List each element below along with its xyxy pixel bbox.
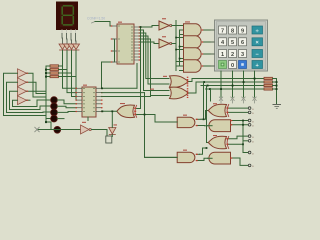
LED indicator dot 5 [54, 126, 61, 133]
component box X1 [106, 136, 112, 143]
junction dots staircase [203, 118, 208, 149]
wire U9B to right gates [200, 148, 208, 161]
wire U1 left pins bus [102, 39, 115, 88]
svg-text:2: 2 [231, 52, 234, 58]
LED indicator dot 1 [51, 97, 58, 104]
diode D3 [68, 44, 75, 50]
wire XOR3 output to U2 [102, 110, 117, 112]
IC U1 (keypad encoder) [111, 24, 140, 64]
junction dots rails [203, 78, 255, 90]
wire inverter inputs nest [4, 73, 51, 118]
inverter U3C [18, 87, 27, 96]
XOR gate U5 (faces left) [117, 105, 137, 118]
junction dots XOR3 [101, 87, 145, 115]
junction dots RP1 [45, 69, 47, 124]
wire U1 right bus verticals [140, 26, 169, 109]
wire AND outs to keypad [208, 30, 215, 66]
wire U2 bottom stub [87, 117, 89, 121]
OR gate U8A [170, 76, 193, 88]
OR gate U8B [170, 87, 197, 99]
U1 pin numbers [118, 26, 133, 63]
XOR gate U10C (faces left) [208, 136, 248, 149]
keypad bottom pins and wires [221, 71, 255, 97]
wire diodes to U2 left pins [63, 51, 77, 101]
LED indicator dot 4 [51, 115, 58, 122]
junction dots RP2 [276, 81, 278, 90]
wire rail feeds to bottom gates [204, 82, 211, 143]
wire dots to U2 [57, 100, 76, 119]
wire RP2 to ground [276, 79, 278, 105]
wire D5 leads [111, 111, 113, 136]
LED indicator dot 3 [51, 109, 58, 116]
svg-text:3: 3 [241, 52, 244, 58]
inverter U6B [159, 39, 172, 48]
output terminal T8 [248, 164, 254, 168]
AND gate U9B (faces left) [145, 152, 200, 162]
inverter U4 (buffer) [81, 125, 92, 134]
AND gate U7A [184, 24, 209, 36]
U2 pin numbers [83, 88, 95, 112]
svg-text:0: 0 [231, 63, 234, 69]
output terminal T2 [248, 111, 254, 115]
LED indicator dot 2 [51, 103, 58, 110]
ground symbol [273, 105, 281, 109]
keypad KP1 [215, 20, 268, 71]
row1 keys [219, 26, 263, 69]
AND gate U7D [184, 60, 209, 72]
output terminal T5 [248, 135, 254, 139]
AND gate U10B (faces left) [208, 120, 249, 132]
IC U2 (7448 decoder) [76, 87, 103, 117]
AND gate U9A (faces left) [155, 117, 201, 127]
unconnected cross marker [35, 127, 39, 131]
unconnected cross markers keypad columns [219, 97, 256, 103]
row4 keys [219, 61, 227, 69]
junction dot U1 bus [140, 26, 142, 28]
wire dot5 row [37, 129, 81, 131]
XOR gate U10A (faces left) [208, 104, 248, 117]
node label CONF [87, 17, 110, 24]
AND gate U7C [184, 48, 209, 60]
AND gate U7B [184, 36, 209, 48]
wire horizontal rails [192, 79, 264, 94]
wire display to diodes [62, 34, 76, 45]
resistor pack RP1 [46, 65, 76, 78]
wire RP1 common bus [46, 66, 51, 130]
row3 keys [219, 50, 227, 58]
keypad left pins [211, 30, 215, 66]
output terminal T3 [248, 119, 254, 123]
diode D5 [109, 128, 116, 135]
resistor pack RP2 [264, 77, 277, 90]
wire U9A to right gates [201, 111, 209, 126]
wire U2 right rows to bus [102, 64, 151, 115]
wire XOR3 inputs from bus [137, 109, 181, 158]
inverter U3A [18, 69, 27, 78]
diode D1 [59, 44, 66, 50]
svg-text:1: 1 [221, 52, 224, 58]
display pins [62, 30, 76, 34]
svg-text:7: 7 [221, 28, 224, 34]
svg-text:CONF=1.50: CONF=1.50 [87, 17, 105, 21]
inverter U6A [159, 21, 172, 30]
wire inverter outputs [27, 73, 47, 100]
diode D4 [73, 44, 80, 50]
output terminal T1 [248, 107, 254, 111]
inverter U3B [18, 78, 27, 87]
wire terminal bus vertical [243, 121, 248, 153]
output terminal T4 [248, 124, 254, 128]
AND gate U10D (faces left) [208, 152, 249, 165]
output terminal T6 [248, 140, 254, 144]
sheet background [0, 0, 284, 177]
pin tips inverters [27, 73, 29, 101]
junction dots terminal bus [242, 120, 244, 146]
svg-text:8: 8 [231, 28, 234, 34]
junction dots AND bus [175, 37, 180, 60]
row2 keys [219, 38, 227, 46]
svg-text:6: 6 [241, 40, 244, 46]
svg-text:9: 9 [241, 28, 244, 34]
wire U4 out to box [91, 130, 107, 137]
7-segment display DISP1 [56, 2, 78, 31]
diode D2 [64, 44, 71, 50]
svg-text:5: 5 [231, 40, 234, 46]
svg-text:÷: ÷ [256, 28, 259, 34]
inverter U3D [18, 96, 27, 105]
ref labels (tiny red marks) [82, 18, 217, 151]
output terminal T7 [248, 151, 254, 155]
wire inverter outs to AND inputs [172, 21, 183, 71]
wire into U1 pin1 [110, 22, 112, 27]
